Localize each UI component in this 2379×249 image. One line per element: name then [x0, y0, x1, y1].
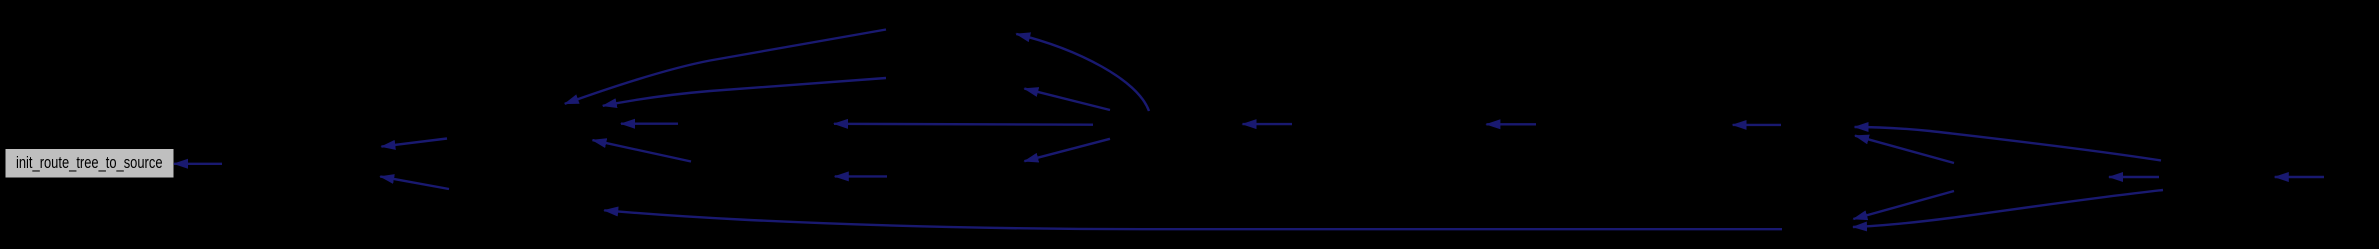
wire edge h2 short horizontal arrow at x1242 [1243, 123, 1293, 125]
wire edge hlong horizontal arrow x1093 to x833 [834, 123, 1093, 126]
wire edge f3 fan arrow lower [1024, 139, 1110, 161]
wire edge j short horizontal arrow at x2108 [2109, 176, 2159, 178]
node init_route_tree_to_source [6, 150, 173, 178]
wire edge e1 arrow into init_route_tree_to_source [174, 163, 222, 165]
wire edge f diagonal arrow into node3 lower right [593, 140, 692, 161]
wire edge k short horizontal arrow at x2274 [2275, 176, 2324, 178]
wire edge h1 short horizontal arrow at x620 [621, 122, 678, 124]
wire edge c long curve into node3-top [565, 30, 886, 104]
wire edge a2 diagonal arrow up-left at right section [1855, 136, 1954, 163]
wire edge e2b lower arrow into node2 [380, 177, 449, 190]
wire edge h5 short horizontal arrow at x834 [835, 175, 887, 177]
wire edge h arrow down-left into bottom node [1853, 191, 1954, 219]
wire edge d curve into node3-top second [603, 78, 886, 106]
svg-text:init_route_tree_to_source: init_route_tree_to_source [16, 153, 163, 172]
wire edge i long curve arrow into bottom node [1853, 190, 2163, 227]
wire edge h3 short horizontal arrow at x1486 [1486, 123, 1536, 125]
wire edge g long bottom sweep arrow [604, 210, 1782, 229]
wire edge h4 short horizontal arrow at x1732 [1733, 124, 1781, 126]
wire edge e2a upper arrow into node2 [381, 139, 447, 147]
wire edge f2 fan arrow middle [1024, 89, 1110, 110]
wire edge a1 long curve arrow into x1854 [1855, 127, 2161, 161]
wire edge f1 curved fan arrow up-left [1016, 34, 1149, 111]
